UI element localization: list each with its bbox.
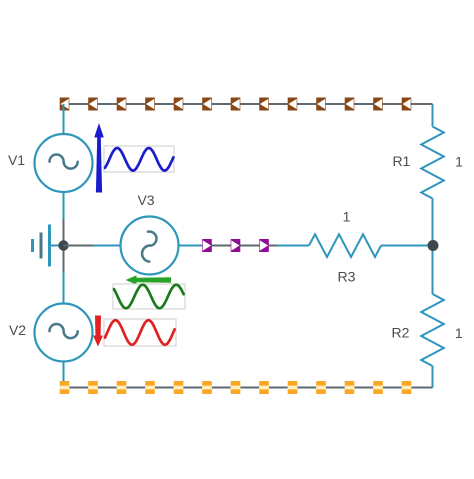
value label 1 (R1) [455, 153, 463, 169]
label R3 [338, 268, 356, 284]
waveform thumbnail for V1 (blue sine) [104, 146, 174, 172]
svg-text:V3: V3 [137, 192, 154, 208]
wire: top horizontal (V1+ to R1 top) [64, 103, 433, 105]
node: right junction (R1/R2/R3) [428, 240, 439, 251]
svg-text:1: 1 [455, 325, 463, 341]
wire: ground node to V3 [64, 245, 94, 247]
label V3 [137, 192, 154, 208]
waveform thumbnail for V2 (red sine) [104, 319, 176, 346]
label R1 [392, 153, 410, 169]
waveform thumbnail for V3 (green sine) [113, 284, 185, 309]
current direction arrow for V2 (red, down) [93, 316, 103, 347]
current direction arrow for V1 (blue, up) [94, 123, 104, 193]
svg-text:R2: R2 [392, 325, 410, 341]
svg-text:V2: V2 [9, 322, 26, 338]
value label 1 (R3) [343, 209, 351, 225]
wire: bottom horizontal (V2- to R2 bottom) [64, 387, 433, 389]
current flow markers on top wire (brown, pointing left) [60, 98, 412, 111]
svg-text:1: 1 [455, 153, 463, 169]
wire: V1 negative to V2 positive (ground net) [63, 219, 65, 272]
current flow markers on bottom wire (orange) [60, 381, 412, 394]
voltage source V1 (AC) [35, 104, 93, 219]
voltage source V3 (AC) [93, 217, 203, 275]
svg-text:V1: V1 [8, 152, 25, 168]
svg-text:R1: R1 [392, 153, 410, 169]
value label 1 (R2) [455, 325, 463, 341]
current flow markers on middle wire (purple, pointing right) [202, 239, 269, 252]
node: ground junction (left) [58, 240, 68, 250]
svg-text:1: 1 [343, 209, 351, 225]
resistor R2 [421, 246, 444, 388]
voltage source V2 (AC) [35, 272, 93, 388]
label R2 [392, 325, 410, 341]
label V1 [8, 152, 25, 168]
svg-text:R3: R3 [338, 268, 356, 284]
ground [33, 225, 61, 267]
current direction arrow for V3 (green, left) [126, 275, 172, 284]
resistor R3 [277, 234, 433, 257]
label V2 [9, 322, 26, 338]
resistor R1 [421, 104, 444, 246]
wire: V3 to R3 [203, 245, 277, 247]
